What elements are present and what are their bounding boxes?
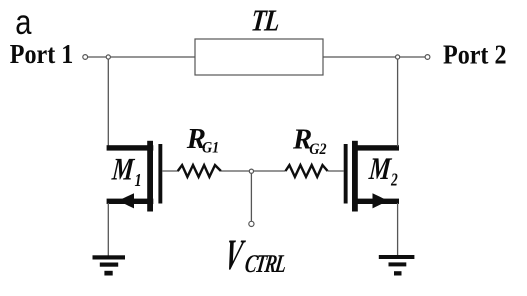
VCTRL terminal bbox=[249, 221, 254, 226]
transistor M2 bbox=[344, 141, 399, 212]
wire RG2 to M2 gate bbox=[328, 170, 344, 172]
wire M2 source to ground bbox=[397, 203, 399, 255]
wire node B to Port 2 terminal bbox=[400, 56, 425, 58]
wire node A down to M1 drain bbox=[107, 59, 109, 146]
transistor M1 bbox=[107, 141, 163, 212]
wire M1 gate to RG1 bbox=[162, 170, 178, 172]
wire RG1 to node C bbox=[221, 170, 249, 172]
svg-text:2: 2 bbox=[390, 171, 398, 190]
svg-text:M: M bbox=[110, 153, 136, 188]
svg-text:1: 1 bbox=[135, 169, 142, 190]
RG1 label bbox=[186, 124, 220, 157]
resistor RG2 bbox=[286, 165, 328, 177]
ground right bbox=[379, 255, 415, 276]
svg-text:G1: G1 bbox=[202, 140, 219, 157]
node B junction bbox=[396, 55, 400, 59]
svg-text:Port 1: Port 1 bbox=[10, 38, 73, 69]
wire Port 1 terminal to node A bbox=[88, 56, 106, 58]
svg-text:G2: G2 bbox=[309, 141, 327, 158]
resistor RG1 bbox=[178, 165, 221, 177]
wire TL to node B bbox=[323, 56, 395, 58]
RG2 label bbox=[292, 125, 327, 158]
svg-text:M: M bbox=[367, 152, 393, 187]
wire node A to TL bbox=[111, 56, 195, 58]
Port 1 terminal bbox=[83, 55, 88, 60]
transmission line TL body bbox=[195, 39, 323, 75]
wire M1 source to ground bbox=[107, 203, 109, 256]
svg-text:Port 2: Port 2 bbox=[443, 39, 507, 70]
node A junction bbox=[106, 55, 110, 59]
VCTRL label bbox=[221, 230, 288, 279]
ground left bbox=[93, 255, 126, 275]
svg-text:CTRL: CTRL bbox=[243, 249, 288, 278]
svg-text:a: a bbox=[15, 2, 32, 41]
wire node B down to M2 drain bbox=[397, 59, 399, 146]
M1 label bbox=[110, 153, 142, 190]
wire node C down to VCTRL terminal bbox=[250, 174, 252, 222]
node C junction bbox=[249, 169, 253, 173]
svg-text:TL: TL bbox=[250, 3, 281, 37]
M2 label bbox=[367, 152, 398, 190]
Port 2 terminal bbox=[425, 55, 430, 60]
wire node C to RG2 bbox=[254, 170, 286, 172]
